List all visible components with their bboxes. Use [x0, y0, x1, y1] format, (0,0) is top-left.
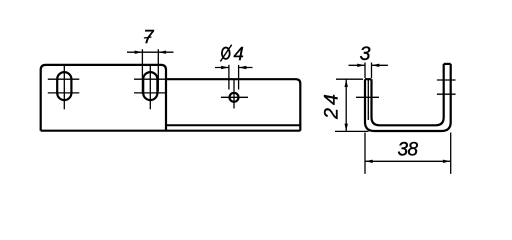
side view: left leg top cap [365, 78, 372, 80]
hole centerlines [221, 80, 248, 109]
slot 1 vertical centerline [63, 65, 65, 109]
svg-text:4: 4 [234, 43, 244, 64]
front view: bottom edge [41, 130, 301, 132]
slot 2 horizontal centerlines [134, 79, 166, 93]
side view: left leg middle line [367, 79, 369, 120]
dim Ø4: arrows [221, 66, 246, 69]
dim text Ø4 [220, 45, 231, 62]
diameter symbol slash [220, 45, 231, 62]
dim 7: crossbar of seven [144, 37, 152, 38]
front view: back plate outline [41, 65, 166, 131]
dim 24: extension lines [335, 79, 369, 131]
svg-text:24: 24 [321, 91, 343, 120]
dim 38: arrows [365, 160, 451, 163]
dim Ø4: extension lines [229, 65, 239, 90]
dim 3: arrows [357, 64, 379, 67]
dim 3: dimension line [349, 64, 388, 66]
dim 38: extension lines [365, 133, 451, 174]
hole [230, 93, 239, 102]
diameter symbol ellipse [222, 48, 230, 59]
dim Ø4: dimension line [215, 67, 253, 69]
dim 38: dimension line [365, 160, 451, 162]
slot 1 [57, 72, 71, 100]
dim 7: arrows [135, 51, 167, 54]
side view: right leg slot centerline ticks [437, 80, 456, 94]
dim 24: arrows [345, 79, 348, 131]
dim 7: extension lines [142, 49, 158, 94]
slot 1 horizontal centerlines [48, 79, 80, 93]
dim 7: dimension line [127, 51, 174, 53]
svg-text:3: 3 [360, 43, 371, 65]
slot 2 [143, 72, 157, 100]
front view: front plate outline [166, 79, 300, 131]
side view: inner profile [372, 64, 444, 125]
dim 3: extension lines [365, 63, 372, 79]
side view: left leg hole centerline tick [356, 96, 379, 98]
slot 2 vertical centerline [149, 65, 151, 109]
side view: right leg top cap [444, 63, 451, 65]
svg-text:7: 7 [143, 26, 154, 47]
svg-text:38: 38 [398, 139, 419, 160]
dim 24: dimension line [345, 79, 347, 131]
front view: bend tangent line [166, 124, 300, 126]
side view: outer profile [365, 64, 451, 131]
